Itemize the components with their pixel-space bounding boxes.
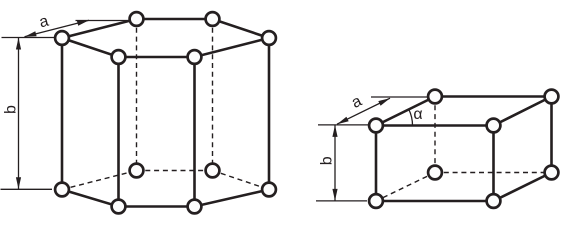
atom bottom-back-right (left cell)	[206, 164, 220, 178]
wire: hidden bottom edge backleft-to-frontleft (dashed, right cell)	[376, 173, 435, 202]
wire: hidden vertical edge back-left (dashed)	[136, 19, 138, 171]
atom top-front-right (right cell)	[487, 119, 501, 133]
dimension arrow a (right)	[337, 98, 390, 124]
wire: bottom right edge (right cell)	[494, 173, 552, 202]
extension line right-b top	[318, 124, 369, 126]
wire: top hexagon face	[62, 19, 269, 57]
svg-text:a: a	[349, 93, 365, 112]
wire: hidden vertical edge back-right (dashed)	[212, 19, 214, 171]
atom top-back-left (left cell)	[130, 12, 144, 26]
extension line left-b top	[2, 37, 55, 39]
atom top-front-left (right cell)	[369, 119, 383, 133]
atom bottom-left (left cell)	[55, 183, 69, 197]
svg-text:b: b	[319, 156, 336, 165]
wire: top face (right cell)	[376, 97, 552, 126]
wire: vertical edge front-right	[193, 57, 196, 207]
wire: bottom front edge (right cell)	[376, 200, 494, 203]
left diagram: hexagonal prism unit cell	[1, 12, 276, 213]
wire: vertical edge left	[61, 38, 64, 190]
atom bottom-back-left (left cell)	[130, 164, 144, 178]
atom top-back-left (right cell)	[428, 90, 442, 104]
wire: bottom front edges	[62, 190, 269, 207]
atom bottom-front-left (left cell)	[112, 200, 126, 214]
atom top-left (left cell)	[55, 31, 69, 45]
atom bottom-right (left cell)	[262, 183, 276, 197]
extension line left-b bottom	[1, 188, 53, 190]
dimension arrow b (right)	[332, 125, 337, 201]
atom bottom-front-right (left cell)	[188, 200, 202, 214]
atom top-front-right (left cell)	[188, 50, 202, 64]
atom bottom-front-left (right cell)	[369, 194, 383, 208]
wire: vertical edge front-left (right cell)	[375, 126, 378, 202]
atom top-right (left cell)	[262, 31, 276, 45]
wire: vertical edge back-right (right cell)	[550, 97, 553, 173]
wire: vertical edge right	[268, 38, 271, 190]
wire: vertical edge front-right (right cell)	[492, 126, 495, 202]
atom top-front-left (left cell)	[112, 50, 126, 64]
wire: vertical edge front-left	[117, 57, 120, 207]
extension line left-a upper	[76, 20, 129, 22]
svg-text:b: b	[3, 105, 20, 114]
dimension arrow a (left)	[25, 20, 90, 36]
atom top-back-right (right cell)	[545, 90, 559, 104]
right diagram: monoclinic unit cell	[316, 90, 558, 208]
angle arc alpha	[409, 109, 413, 125]
atom bottom-back-right (right cell)	[545, 166, 559, 180]
extension line right-b bottom	[316, 200, 367, 202]
atom bottom-front-right (right cell)	[487, 194, 501, 208]
wire: hidden vertical edge back-left (dashed, right cell)	[434, 97, 436, 173]
extension line right-a upper	[371, 96, 428, 98]
dimension arrow b (left)	[16, 38, 21, 189]
wire: hidden bottom edge backleft-to-backright (dashed)	[137, 170, 213, 172]
atom bottom-back-left (right cell)	[428, 166, 442, 180]
atom top-back-right (left cell)	[206, 12, 220, 26]
wire: hidden bottom edge backright-to-right (dashed)	[213, 171, 270, 190]
wire: hidden bottom edge backleft-to-backright (dashed, right cell)	[435, 172, 552, 174]
wire: hidden bottom edge left-to-backleft (dashed)	[62, 171, 137, 190]
svg-text:α: α	[413, 106, 422, 123]
svg-text:a: a	[38, 13, 51, 32]
